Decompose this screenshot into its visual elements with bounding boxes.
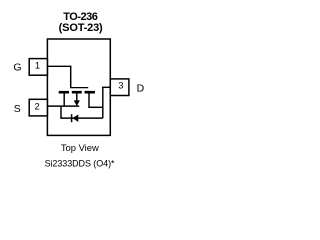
gate bar of MOSFET Q1 bbox=[70, 87, 88, 89]
pin 1 box bbox=[29, 59, 47, 76]
wire drain vertical bbox=[102, 87, 104, 118]
svg-text:S: S bbox=[14, 103, 21, 115]
pin 3 box bbox=[110, 79, 129, 96]
wire body-diode loop left bbox=[60, 106, 62, 118]
body diode cathode bar bbox=[71, 114, 73, 122]
body diode triangle bbox=[72, 115, 78, 122]
wire gate from pin 1 bbox=[47, 66, 70, 87]
svg-text:G: G bbox=[13, 62, 21, 74]
svg-text:D: D bbox=[137, 82, 145, 94]
svg-text:3: 3 bbox=[118, 80, 123, 91]
svg-text:1: 1 bbox=[35, 59, 40, 70]
package outline SOT-23 body bbox=[47, 39, 110, 135]
body arrowhead bbox=[74, 100, 80, 106]
channel segment source bbox=[59, 91, 69, 94]
svg-text:(SOT-23): (SOT-23) bbox=[59, 22, 103, 34]
pin 2 box bbox=[29, 99, 47, 116]
source stub bbox=[63, 93, 65, 106]
wire drain horizontal bbox=[88, 106, 103, 108]
svg-text:Si2333DDS (O4)*: Si2333DDS (O4)* bbox=[45, 159, 115, 169]
wire source from pin 2 bbox=[47, 105, 79, 107]
channel segment drain bbox=[85, 91, 95, 94]
body stub with arrow bbox=[76, 93, 78, 101]
svg-text:2: 2 bbox=[34, 100, 39, 111]
channel segment body bbox=[72, 91, 82, 94]
wire to pin 3 bbox=[102, 86, 110, 88]
drain stub bbox=[88, 93, 90, 108]
svg-text:Top View: Top View bbox=[61, 142, 99, 153]
wire body-diode line bbox=[60, 117, 103, 119]
